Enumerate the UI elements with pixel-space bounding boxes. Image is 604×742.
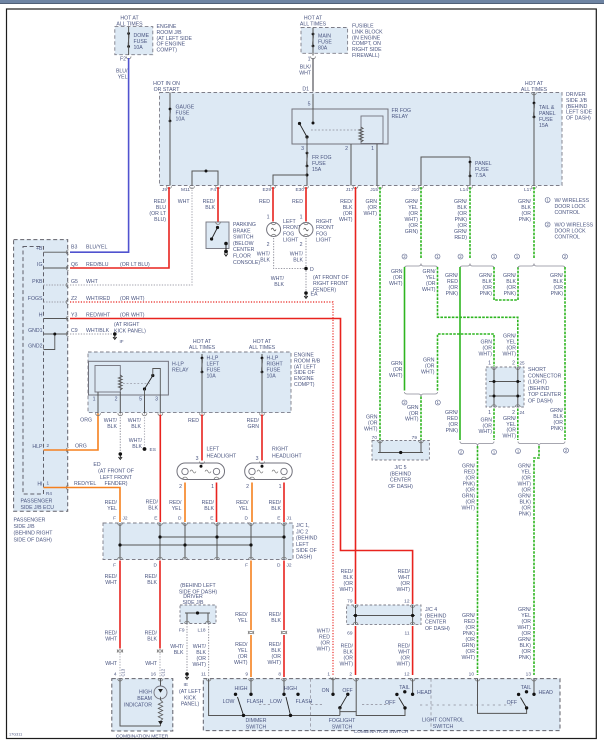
svg-text:J2: J2 [123, 516, 128, 522]
svg-text:C12: C12 [161, 668, 166, 676]
svg-text:LEFT: LEFT [283, 219, 297, 225]
svg-text:(AT FRONT OF: (AT FRONT OF [313, 275, 349, 281]
J/C bus high beam [160, 536, 284, 538]
svg-text:WHT): WHT) [339, 217, 353, 223]
svg-text:WHT): WHT) [339, 587, 353, 593]
svg-text:OF DASH): OF DASH) [388, 484, 413, 490]
svg-text:WHT): WHT) [192, 662, 206, 668]
svg-text:RED/WHT: RED/WHT [86, 312, 111, 318]
svg-text:COMPT): COMPT) [294, 382, 315, 388]
svg-text:15A: 15A [539, 123, 549, 129]
wire RED/YEL J/C pin F to dimmer 9 [250, 561, 252, 631]
svg-text:1: 1 [371, 146, 374, 152]
dimmer switch common bus from pin 11 [206, 679, 211, 681]
svg-text:SIDE J/B: SIDE J/B [14, 524, 36, 530]
svg-text:BRAKE: BRAKE [233, 228, 251, 234]
svg-text:IE: IE [184, 682, 189, 688]
svg-text:PNK): PNK) [504, 291, 517, 297]
svg-text:FRONT: FRONT [316, 225, 335, 231]
label PASSENGER SIDE J/B ECU [21, 499, 55, 511]
svg-text:KICK PANEL): KICK PANEL) [114, 328, 146, 334]
svg-text:3: 3 [155, 397, 158, 403]
svg-text:WHT): WHT) [364, 427, 378, 433]
connector J17 [353, 186, 358, 188]
svg-text:7.5A: 7.5A [475, 173, 486, 179]
wire WHT M11 to ECU PKB [70, 187, 192, 285]
label J/C 5 [388, 465, 413, 490]
svg-text:ALL TIMES: ALL TIMES [521, 87, 548, 93]
fr fog fuse 15A [306, 153, 308, 166]
svg-text:(OR LT BLU): (OR LT BLU) [120, 262, 150, 268]
svg-text:WHT): WHT) [478, 429, 492, 435]
svg-text:WHT): WHT) [389, 373, 403, 379]
svg-text:YEL: YEL [238, 618, 248, 624]
svg-text:SWITCH: SWITCH [332, 724, 353, 730]
svg-text:PNK): PNK) [446, 291, 459, 297]
svg-text:F: F [113, 563, 116, 569]
svg-text:1: 1 [267, 215, 270, 221]
svg-text:BLK: BLK [147, 580, 157, 586]
svg-text:(BEHIND RIGHT: (BEHIND RIGHT [14, 531, 54, 537]
svg-text:79: 79 [347, 599, 353, 605]
svg-text:(BEHIND: (BEHIND [528, 386, 550, 392]
svg-text:OFF: OFF [385, 700, 395, 706]
svg-text:OFF: OFF [342, 688, 352, 694]
svg-text:D1: D1 [302, 87, 309, 93]
svg-text:WHT/BLK: WHT/BLK [86, 328, 110, 334]
svg-text:COMBINATION METER: COMBINATION METER [116, 734, 169, 740]
foglight switch pin 2 riser [354, 679, 359, 681]
svg-text:FENDER): FENDER) [104, 481, 127, 487]
svg-text:G5: G5 [71, 279, 78, 285]
svg-text:LOW: LOW [223, 699, 235, 705]
label PARKING BRAKE SWITCH [233, 222, 260, 266]
svg-text:C9: C9 [71, 328, 78, 334]
svg-text:YEL: YEL [118, 75, 128, 81]
fr fog relay linkage dashes [311, 129, 359, 131]
svg-text:WHT): WHT) [316, 647, 330, 653]
connector F2 [126, 57, 131, 59]
svg-text:RIGHT FRONT: RIGHT FRONT [313, 281, 349, 287]
svg-text:2: 2 [47, 443, 50, 448]
svg-text:PNK): PNK) [519, 655, 532, 661]
svg-text:ALL TIMES: ALL TIMES [249, 345, 276, 351]
svg-text:RIGHT: RIGHT [316, 219, 333, 225]
fr fog relay coil box [361, 116, 383, 144]
label LIGHT CONTROL SWITCH [422, 718, 464, 730]
svg-text:CONSOLE): CONSOLE) [233, 260, 260, 266]
label HOT AT ALL TIMES (main) [300, 16, 327, 28]
svg-text:ON: ON [322, 688, 330, 694]
right headlight [260, 462, 265, 464]
svg-text:16: 16 [151, 672, 157, 678]
wire WHT/BLK right fog light down [305, 238, 307, 292]
label DIMMER SWITCH [245, 718, 266, 730]
ground ED [119, 452, 123, 456]
svg-text:HLP: HLP [32, 444, 43, 450]
fr fog relay contact [298, 122, 301, 125]
svg-text:HIGH: HIGH [235, 686, 248, 692]
svg-text:WHT: WHT [105, 580, 118, 586]
svg-text:(BEHIND: (BEHIND [425, 613, 447, 619]
svg-text:PNK): PNK) [480, 291, 493, 297]
svg-text:BLK: BLK [274, 282, 284, 288]
label RED/WHT above J/C4 [396, 569, 410, 593]
svg-text:WHT): WHT) [502, 352, 516, 358]
svg-text:SIDE OF: SIDE OF [296, 548, 317, 554]
passenger side J/B box (outer) [14, 240, 68, 512]
wire GRN/BLK branch 2 of L17 to merge B [564, 267, 566, 440]
fr fog relay pin 5 wire [312, 94, 314, 109]
merge brace A (to light control 10) [460, 442, 494, 447]
svg-text:ALL TIMES: ALL TIMES [300, 22, 327, 28]
wire WHT/BLK C9 to ground IF [70, 333, 115, 335]
svg-text:(AT LEFT: (AT LEFT [179, 689, 202, 695]
junction to E29 [306, 174, 309, 177]
svg-text:5: 5 [308, 102, 311, 108]
svg-text:E29: E29 [262, 187, 271, 193]
svg-text:2: 2 [512, 361, 515, 367]
ECU pin GND1 [44, 333, 68, 335]
wire GRN/BLK L14 down to split [469, 187, 471, 258]
driver side J/B small box [180, 605, 216, 624]
svg-text:BLU/YEL: BLU/YEL [86, 244, 107, 250]
driver side J/B box (hot in on or start) [160, 93, 563, 186]
combination switch box [203, 679, 560, 731]
ECU pin +B [44, 251, 68, 253]
svg-text:FOG: FOG [283, 231, 294, 237]
junction node D [304, 267, 308, 271]
svg-text:HEADLIGHT: HEADLIGHT [207, 454, 238, 460]
svg-text:FLASH: FLASH [296, 699, 313, 705]
svg-text:WHT: WHT [145, 661, 158, 667]
svg-text:WHT: WHT [105, 661, 118, 667]
wire WHT to combination meter pin 16 [159, 654, 161, 678]
wire WHT/BLK F9 to ground IE [186, 624, 188, 673]
svg-text:24: 24 [520, 410, 526, 415]
J/C risers [118, 523, 123, 525]
svg-text:1: 1 [47, 481, 50, 486]
label ENGINE ROOM R/B [294, 353, 321, 389]
svg-text:1: 1 [93, 397, 96, 403]
svg-text:D: D [245, 516, 249, 522]
svg-text:HIGH: HIGH [284, 686, 297, 692]
gang link dashes foglight [362, 704, 390, 706]
svg-text:KICK: KICK [184, 695, 197, 701]
svg-text:PNK): PNK) [519, 512, 532, 518]
svg-text:Y3: Y3 [71, 312, 77, 318]
bridge wire M11-F4 [192, 171, 218, 186]
svg-text:SWITCH: SWITCH [233, 235, 254, 241]
svg-text:WHT): WHT) [461, 506, 475, 512]
ground EA at front of right front fender [304, 291, 308, 295]
svg-text:WHT): WHT) [422, 287, 436, 293]
wire GRN/YEL merged to light control switch pin 13 [534, 446, 539, 675]
svg-text:HEAD: HEAD [417, 690, 432, 696]
light control switch sub 1 [410, 679, 415, 681]
svg-text:WHT): WHT) [234, 660, 248, 666]
svg-text:PNK): PNK) [551, 291, 564, 297]
svg-text:PASSENGER: PASSENGER [14, 518, 46, 524]
h-lp relay linkage dashes [123, 382, 150, 384]
svg-text:J/C 5: J/C 5 [394, 465, 406, 471]
connector M11 [190, 186, 195, 188]
label HOT AT ALL TIMES (dome) [116, 16, 143, 28]
svg-text:GRN): GRN) [405, 229, 419, 235]
svg-text:RIGHT: RIGHT [272, 447, 289, 453]
svg-text:WHT): WHT) [396, 662, 410, 668]
svg-text:OF DASH): OF DASH) [425, 626, 450, 632]
svg-text:F9: F9 [179, 628, 185, 634]
h-lp right fuse 10A [261, 354, 263, 358]
label J/C 1 J/C 2 [296, 523, 318, 561]
svg-text:J2: J2 [287, 563, 292, 569]
wire label RED/BLK at F4 [203, 199, 216, 211]
wire short connector pin1 to merge A [493, 409, 495, 441]
wire RED/YEL right headlight pin2 [251, 483, 253, 523]
svg-text:PKB: PKB [32, 279, 43, 285]
svg-text:LIGHT CONTROL: LIGHT CONTROL [422, 718, 464, 724]
label DRIVER SIDE J/B [566, 92, 593, 122]
svg-text:12: 12 [404, 599, 410, 605]
wire WHT/BLK L18 to dimmer switch pin 11 [208, 624, 210, 678]
svg-text:L18: L18 [197, 628, 205, 634]
svg-text:2: 2 [349, 672, 352, 678]
connector J15 [378, 186, 383, 188]
dimmer switch sub A [249, 679, 254, 681]
gauge fuse 10A [169, 93, 171, 110]
svg-text:WHT): WHT) [421, 370, 435, 376]
parking brake switch ground [224, 250, 228, 254]
ECU pin PKB [44, 284, 68, 286]
svg-text:CONTROL: CONTROL [555, 210, 580, 216]
wire WHT/BLK relay pin2 to ground ED [119, 415, 121, 453]
svg-text:13: 13 [526, 672, 532, 678]
svg-text:80A: 80A [318, 46, 328, 52]
svg-text:11: 11 [405, 631, 410, 637]
wire label GRN at J15 [363, 199, 377, 217]
wire label RED at E30 [292, 199, 303, 205]
svg-text:FOGLIGHT: FOGLIGHT [329, 718, 356, 724]
ECU pin H [44, 318, 68, 320]
svg-text:FIREWALL): FIREWALL) [352, 53, 380, 59]
label HOT AT ALL TIMES (h-lp left) [189, 339, 216, 351]
svg-text:(BEHIND: (BEHIND [390, 471, 412, 477]
svg-text:1: 1 [488, 361, 491, 367]
svg-text:BLK: BLK [293, 258, 303, 264]
combination meter box [112, 679, 173, 731]
svg-text:PASSENGER: PASSENGER [21, 499, 53, 505]
svg-text:(BELOW: (BELOW [233, 241, 254, 247]
svg-text:HIGH: HIGH [139, 690, 152, 696]
label PASSENGER SIDE J/B [14, 518, 54, 544]
label RED/YEL on ECU HI wire [105, 500, 118, 512]
svg-text:OFF: OFF [507, 700, 517, 706]
wire RED/WHT Y3 to light control switch [70, 319, 413, 605]
svg-text:PANEL): PANEL) [181, 702, 200, 708]
engine room J/B box (dome fuse) [115, 27, 153, 55]
label BEHIND LEFT SIDE OF DASH driver side J/B [179, 583, 218, 595]
svg-text:BLK: BLK [131, 424, 141, 430]
svg-text:J10: J10 [411, 187, 419, 193]
label HOT AT ALL TIMES (h-lp right) [249, 339, 276, 351]
connector J10 [419, 186, 424, 188]
ground IF [113, 332, 117, 336]
svg-text:FENDER): FENDER) [313, 287, 336, 293]
short connector internal wires [493, 367, 495, 407]
svg-text:OF DASH): OF DASH) [566, 116, 591, 122]
svg-text:CONNECTOR: CONNECTOR [528, 373, 562, 379]
light control switch sub 2 [475, 679, 480, 681]
svg-text:WHT: WHT [105, 637, 118, 643]
svg-text:COMBINATION SWITCH: COMBINATION SWITCH [354, 729, 409, 735]
split brace L14 variants [460, 264, 494, 269]
svg-text:15A: 15A [312, 167, 322, 173]
wire RED/BLK J/C pin D to connector [159, 561, 161, 649]
ground ES dot [143, 447, 147, 451]
svg-text:(OR WHT): (OR WHT) [120, 296, 145, 302]
ECU pin FOGS [44, 301, 68, 303]
svg-text:ORG: ORG [80, 418, 92, 424]
svg-text:LEFT FRONT: LEFT FRONT [100, 475, 133, 481]
wire GRN bridge from short connector pin 1 to merge [438, 334, 495, 391]
svg-text:FOGS: FOGS [28, 296, 43, 302]
wire RED E29 to left front fog light [272, 187, 274, 222]
svg-text:BLK: BLK [132, 444, 142, 450]
connector stubs under engine room R/B [96, 413, 101, 415]
merge brace J10 variants to J/C 5 [405, 392, 438, 397]
svg-text:BLK: BLK [271, 618, 281, 624]
svg-text:5: 5 [139, 397, 142, 403]
svg-text:BLK: BLK [148, 506, 158, 512]
svg-text:R4: R4 [46, 491, 52, 496]
label WHT/RED at foglight switch pin 1 [316, 629, 330, 653]
svg-text:RED/BLU: RED/BLU [86, 262, 109, 268]
svg-text:E: E [210, 516, 213, 522]
svg-text:DRIVER: DRIVER [183, 594, 203, 600]
wire label GRN/BLK at L17 [518, 199, 532, 223]
wire WHT/RED Z2 to foglight switch [70, 302, 333, 675]
svg-text:1: 1 [279, 484, 282, 490]
svg-text:WHT): WHT) [405, 417, 419, 423]
svg-text:RED): RED) [454, 235, 467, 241]
svg-text:HEADLIGHT: HEADLIGHT [272, 454, 303, 460]
svg-text:3: 3 [301, 146, 304, 152]
svg-text:WHT: WHT [178, 199, 191, 205]
svg-text:(LIGHT): (LIGHT) [528, 380, 547, 386]
svg-text:SHORT: SHORT [528, 367, 547, 373]
wire RED/BLK J/C4 to foglight switch pin 2 [355, 626, 357, 675]
svg-text:(OR WHT): (OR WHT) [120, 312, 145, 318]
svg-text:J1: J1 [287, 516, 292, 522]
svg-text:E: E [277, 516, 280, 522]
top blue bar [0, 0, 604, 3]
svg-text:25: 25 [520, 361, 526, 366]
short connector box [486, 367, 524, 407]
note 2 w/o wireless door lock control [545, 222, 550, 227]
svg-text:ES: ES [150, 447, 156, 453]
fr fog relay pin wires 2 and 1 [350, 144, 352, 186]
svg-text:3: 3 [256, 456, 259, 462]
svg-text:PNK): PNK) [446, 428, 459, 434]
wire RED relay pin3 to J/C pin E [159, 415, 161, 523]
wire RED/BLK F4 to parking brake switch [217, 187, 219, 222]
svg-text:F: F [245, 563, 248, 569]
connector L14 [468, 186, 473, 188]
svg-text:(AT FRONT OF: (AT FRONT OF [98, 469, 134, 475]
svg-text:BLK: BLK [260, 258, 270, 264]
svg-text:1: 1 [488, 410, 491, 416]
merge brace B (to light control 13) [518, 442, 565, 447]
svg-text:10: 10 [469, 672, 475, 678]
engine room R/B box [88, 352, 291, 413]
h-lp relay box [89, 361, 169, 395]
svg-text:DIMMER: DIMMER [245, 718, 266, 724]
svg-text:H-LP: H-LP [172, 362, 184, 368]
svg-text:ORG: ORG [75, 444, 87, 450]
wire RED/BLK right headlight pin1 [283, 483, 285, 523]
wire GRN J15 down to J/C 5 pin 70 [379, 187, 381, 440]
svg-text:10A: 10A [134, 45, 144, 51]
dimmer switch sub B [282, 679, 287, 681]
wire GRN/BLK branch 1 of L14 loop to L17 brace [494, 267, 518, 300]
wire label RED/BLU at J9 [149, 199, 166, 223]
junction connector J/C 5 box [372, 441, 429, 461]
svg-text:GND2: GND2 [28, 343, 43, 349]
h-lp relay contact [143, 387, 146, 390]
svg-text:J15: J15 [370, 187, 378, 193]
svg-text:J/C 1,: J/C 1, [296, 523, 310, 529]
svg-text:(BEHIND: (BEHIND [296, 536, 318, 542]
svg-text:BLK: BLK [147, 637, 157, 643]
connector D1 at J/B edge [311, 94, 316, 96]
svg-text:OR START: OR START [154, 87, 181, 93]
svg-text:E30: E30 [295, 187, 304, 193]
svg-text:PNK): PNK) [551, 426, 564, 432]
svg-text:WHT): WHT) [502, 433, 516, 439]
label ENGINE ROOM J/B [157, 24, 193, 54]
wire RED/YEL left headlight pin2 [184, 483, 186, 523]
svg-text:BLK: BLK [271, 506, 281, 512]
dome fuse 10A [128, 34, 130, 47]
svg-text:10A: 10A [207, 374, 217, 380]
split brace J10 variants [405, 264, 438, 269]
svg-text:(BEHIND LEFT: (BEHIND LEFT [180, 583, 216, 589]
svg-text:HI: HI [37, 481, 42, 487]
wire label RED/BLK at J17 [339, 199, 353, 223]
connector J9 [167, 186, 172, 188]
svg-text:BLK: BLK [174, 650, 184, 656]
wire GRN/RED merged to light control switch pin 10 [477, 446, 479, 675]
wire RED/BLK J/C pin D to dimmer 8 [283, 561, 285, 631]
svg-text:10A: 10A [267, 374, 277, 380]
wire WHT to combination meter pin 4 [119, 654, 121, 678]
left headlight [200, 462, 205, 464]
label GRN/YEL above short connector [502, 334, 516, 358]
wire RED/WHT J/C4 to light control switch pin 12 [412, 626, 414, 675]
h-lp relay pin wires [97, 392, 99, 414]
label J/C 4 [425, 607, 450, 632]
svg-text:LEFT: LEFT [296, 542, 310, 548]
svg-text:COMPT): COMPT) [157, 48, 178, 54]
label HIGH BEAM INDICATOR [124, 690, 152, 709]
svg-text:CONTROL: CONTROL [555, 234, 580, 240]
junction connector J/C1 J/C2 box [103, 523, 293, 560]
svg-text:F4: F4 [210, 187, 216, 193]
combination switch internal dividers [310, 679, 312, 731]
svg-text:SIDE J/B ECU: SIDE J/B ECU [21, 505, 55, 511]
svg-text:D: D [178, 516, 182, 522]
